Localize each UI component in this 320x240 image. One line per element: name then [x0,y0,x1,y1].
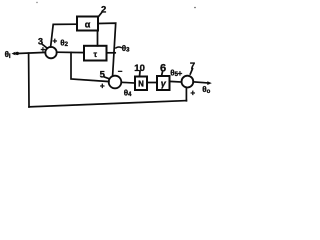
svg-text:+: + [100,82,105,91]
svg-text:6: 6 [160,63,166,75]
svg-text:τ: τ [94,50,98,59]
svg-text:+: + [52,37,57,46]
svg-text:N: N [138,79,144,88]
svg-text:α: α [85,19,91,29]
svg-text:7: 7 [190,61,195,72]
svg-text:5: 5 [100,69,106,80]
svg-text:10: 10 [134,63,145,74]
svg-text:−: − [118,67,123,76]
svg-text:+: + [178,69,183,78]
svg-text:2: 2 [101,5,106,16]
svg-text:+: + [190,88,195,97]
svg-text:+: + [41,45,46,54]
